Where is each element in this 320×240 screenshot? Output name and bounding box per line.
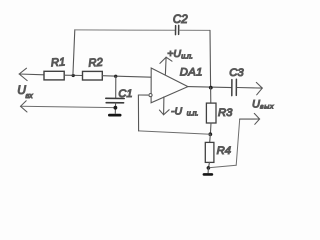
wire (top feedback, right of C2) xyxy=(179,29,210,31)
svg-text:DA1: DA1 xyxy=(180,67,203,79)
input terminal arrow (upper, Uvx) xyxy=(19,68,44,80)
power -Uip arrow xyxy=(159,97,198,118)
svg-text:C1: C1 xyxy=(118,88,132,100)
capacitor C1 xyxy=(106,76,133,113)
wire (return path from ground to lower output arrow) xyxy=(210,119,240,168)
resistor R2 xyxy=(83,57,104,80)
output terminal arrow (lower) xyxy=(240,113,260,124)
wire (op-amp output) xyxy=(188,87,232,88)
power +Uip arrow xyxy=(160,48,193,75)
wire (output node down to R3) xyxy=(210,88,212,104)
wire xyxy=(64,74,82,76)
ground (under C1) xyxy=(108,114,122,117)
capacitor C3 xyxy=(229,67,244,96)
resistor R1 xyxy=(44,56,66,80)
wire (right vertical from C2 to output node) xyxy=(209,30,212,87)
ground (under R4) xyxy=(203,168,214,176)
node: R3/R4 junction xyxy=(208,132,212,136)
svg-text:и.п.: и.п. xyxy=(181,54,193,61)
wire (R3 to junction) xyxy=(209,123,212,134)
wire (top feedback, left of C2) xyxy=(75,29,175,31)
svg-text:R3: R3 xyxy=(218,107,233,119)
node B junction (C1 tap) xyxy=(114,75,117,78)
wire (feedback to inverting input) xyxy=(138,95,210,134)
svg-text:C2: C2 xyxy=(173,14,188,26)
label Uvyx xyxy=(252,98,274,110)
svg-text:+U: +U xyxy=(167,48,181,60)
svg-text:-U: -U xyxy=(171,105,182,117)
resistor R4 xyxy=(205,142,231,162)
svg-text:вх: вх xyxy=(26,93,34,100)
wire (feedback riser to C2) xyxy=(73,30,75,76)
svg-text:C3: C3 xyxy=(229,67,244,79)
node: R4/ground junction xyxy=(207,166,211,170)
label Uvx xyxy=(17,83,33,100)
node A junction xyxy=(72,74,75,77)
op-amp DA1 xyxy=(149,67,203,103)
svg-text:R2: R2 xyxy=(88,57,104,70)
resistor R3 xyxy=(206,103,233,123)
svg-text:U: U xyxy=(252,98,260,110)
capacitor C2 xyxy=(173,14,188,35)
node: C1/ground junction xyxy=(114,106,118,110)
node: output junction xyxy=(209,86,213,90)
svg-text:R4: R4 xyxy=(217,145,231,157)
svg-text:и.п.: и.п. xyxy=(187,111,199,118)
svg-text:R1: R1 xyxy=(50,56,65,69)
wire (lower input line) + input terminal arrow (lower) xyxy=(21,101,116,112)
svg-text:вых: вых xyxy=(260,104,274,111)
output terminal arrow (upper, after C3) xyxy=(237,82,262,94)
wire (R2 to op-amp non-inverting input) xyxy=(102,76,151,78)
wire (R4 to ground node) xyxy=(208,162,209,167)
wire (junction to R4) xyxy=(209,134,212,142)
